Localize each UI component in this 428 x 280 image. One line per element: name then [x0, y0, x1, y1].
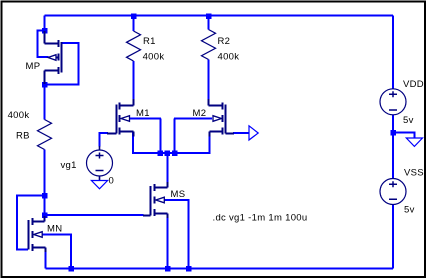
svg-text:MS: MS — [171, 189, 186, 200]
svg-text:.dc vg1 -1m 1m 100u: .dc vg1 -1m 1m 100u — [213, 213, 308, 224]
ground 0 right — [406, 138, 422, 146]
MN bulk arrow (NMOS, points to channel) — [34, 232, 43, 238]
channel bars — [119, 103, 121, 135]
source VDD — [380, 89, 406, 115]
drain lead — [155, 182, 168, 188]
channel bars — [58, 40, 60, 74]
wire MS bulk to rail — [164, 200, 189, 269]
resistor R1 — [127, 31, 141, 61]
wire MN gate loop — [17, 196, 45, 250]
node rail R2 — [206, 13, 212, 19]
node RB bottom — [42, 193, 48, 199]
transistor M1 — [107, 99, 134, 137]
wire mid junction to ground stub — [393, 133, 415, 139]
svg-text:R2: R2 — [218, 36, 231, 47]
source lead — [33, 248, 46, 253]
gate lead — [143, 215, 151, 217]
resistor R2 — [202, 30, 216, 60]
MS bulk arrow (NMOS, points to channel) — [156, 197, 165, 203]
wire R1 to M1 drain — [133, 61, 135, 100]
source vg1 — [87, 146, 113, 181]
wire rail to R1 — [133, 16, 135, 32]
svg-text:vg1: vg1 — [61, 160, 77, 171]
node rail MS source — [165, 266, 171, 272]
wire MP gate loop — [45, 43, 79, 85]
drain lead — [33, 216, 45, 222]
svg-text:R1: R1 — [143, 36, 156, 47]
wire MN node to MS gate — [45, 214, 144, 216]
svg-text:400k: 400k — [143, 52, 165, 63]
wire M1 bulk tail — [130, 118, 161, 120]
node rail MN bulk — [68, 266, 74, 272]
wire top rail — [45, 15, 394, 17]
wire rail to R2 — [208, 16, 210, 30]
svg-text:MN: MN — [47, 224, 62, 235]
wire RB to MN node — [44, 150, 46, 216]
svg-text:400k: 400k — [8, 110, 30, 121]
wire MS source drop — [167, 217, 169, 269]
wire vg1 to M1 gate — [100, 133, 109, 147]
wire right vertical to VDD — [392, 16, 394, 90]
node MN drain / MS gate — [42, 212, 48, 218]
gate line — [150, 186, 152, 216]
transistor MN — [29, 216, 46, 252]
svg-text:5v: 5v — [404, 205, 415, 216]
gate lead — [107, 133, 117, 135]
wire MN bulk to rail — [42, 235, 71, 269]
drain lead — [209, 99, 223, 106]
gate line — [28, 220, 30, 250]
wire common source node — [133, 132, 210, 154]
svg-text:VDD: VDD — [403, 79, 424, 90]
M2 bulk arrow (NMOS, points to channel) — [213, 116, 222, 122]
svg-text:400k: 400k — [218, 52, 240, 63]
channel bars — [222, 103, 224, 135]
svg-text:MP: MP — [26, 61, 41, 72]
svg-text:5v: 5v — [403, 115, 414, 126]
transistor MS — [143, 182, 168, 218]
node common source right — [172, 150, 178, 156]
transistor M2 — [209, 99, 235, 137]
wire M2 gate to port — [233, 132, 249, 134]
wire M2 bulk drop — [174, 119, 176, 154]
M1 bulk arrow (NMOS, points to channel) — [121, 116, 130, 122]
node common source left — [158, 150, 164, 156]
gate line — [61, 42, 63, 73]
svg-text:0: 0 — [109, 176, 115, 187]
node rail MS bulk — [186, 266, 192, 272]
svg-text:RB: RB — [16, 131, 30, 142]
gate line — [116, 105, 118, 134]
resistor RB — [38, 120, 52, 150]
drain lead — [120, 99, 134, 106]
wire VDD to mid junction to VSS — [392, 115, 394, 179]
svg-text:M2: M2 — [193, 108, 207, 119]
source lead — [155, 214, 168, 219]
gate line — [225, 105, 227, 134]
node VDD VSS mid — [390, 130, 396, 136]
wire MN source drop — [45, 248, 47, 269]
source VSS — [380, 179, 406, 205]
node MP gate-drain — [42, 82, 48, 88]
node common source mid — [165, 150, 171, 156]
source lead — [120, 132, 134, 137]
channel bars — [32, 218, 34, 251]
wire rail to MP top junction — [44, 16, 46, 31]
wire VSS to bottom rail — [392, 205, 394, 269]
wire M1 bulk drop — [159, 119, 161, 154]
source lead (top) — [45, 31, 59, 44]
node rail R1 — [131, 13, 137, 19]
source lead — [210, 132, 223, 137]
node MP top — [42, 28, 48, 34]
wire MP bulk loop — [38, 31, 49, 58]
channel bars — [154, 184, 156, 216]
svg-text:M1: M1 — [136, 108, 150, 119]
drain lead (bottom) — [45, 71, 59, 85]
transistor MP — [45, 31, 62, 84]
bulk tail stub — [56, 57, 59, 59]
wire MS drain riser — [167, 153, 169, 183]
ground 0 under vg1 — [91, 181, 107, 189]
wire MP drain to RB — [44, 85, 46, 120]
gate lead — [226, 133, 235, 135]
port arrow at M2 gate — [249, 126, 258, 140]
wire bottom rail — [46, 268, 394, 270]
MP bulk arrow (PMOS, points away from channel) — [48, 55, 56, 61]
svg-text:VSS: VSS — [404, 168, 424, 179]
wire M2 bulk tail — [174, 118, 212, 120]
wire R2 to M2 drain — [208, 60, 210, 101]
